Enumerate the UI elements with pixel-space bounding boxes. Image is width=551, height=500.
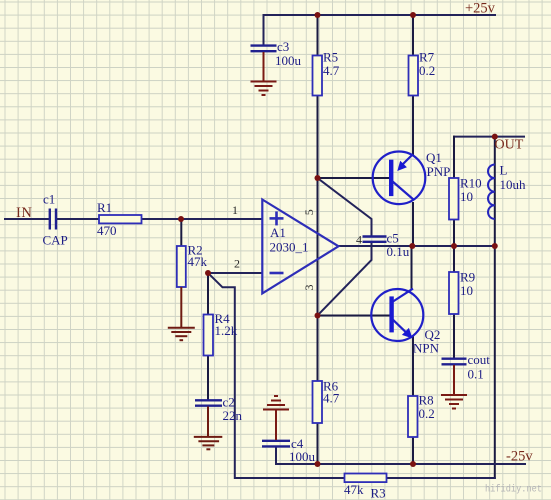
svg-text:IN: IN	[16, 205, 33, 221]
svg-text:22n: 22n	[223, 408, 243, 423]
junction dot rail-R5	[315, 12, 321, 18]
transistor Q2 NPN	[371, 289, 440, 356]
ground below c2	[194, 407, 223, 450]
svg-text:PNP: PNP	[427, 164, 451, 179]
op-amp U1 A1 2030_1	[262, 200, 338, 294]
capacitor c5	[363, 231, 410, 260]
capacitor c4	[262, 436, 316, 464]
svg-text:cout: cout	[468, 352, 491, 367]
wire c3 top stem to rail	[263, 15, 265, 45]
wire R7 branch from rail	[412, 15, 414, 56]
svg-text:+25v: +25v	[465, 1, 496, 17]
wire op-amp pin 2	[208, 272, 262, 274]
wire R4 top branch	[207, 273, 209, 315]
junction dot Q1 base node	[315, 175, 321, 181]
wire -25v rail	[276, 463, 525, 465]
wire R10 bottom to mid line	[453, 220, 455, 247]
svg-text:0.1: 0.1	[468, 367, 484, 382]
wire c5 bottom stub	[371, 242, 373, 246]
svg-text:OUT: OUT	[495, 138, 524, 153]
wire +25v top rail	[264, 14, 496, 16]
wire c1 to op-amp pin 1	[57, 218, 262, 220]
capacitor c2	[195, 395, 243, 424]
resistor R1	[97, 200, 142, 238]
wire op-amp output mid line	[339, 245, 495, 247]
junction dot Q2 base node	[315, 313, 321, 319]
resistor R6	[313, 379, 340, 424]
wire OUT column through inductor	[494, 137, 496, 246]
junction dot mid line R10-R9	[451, 243, 457, 249]
capacitor c1	[43, 192, 68, 248]
svg-text:CAP: CAP	[43, 233, 68, 248]
svg-text:1.2k: 1.2k	[215, 323, 238, 338]
svg-text:5: 5	[302, 209, 316, 215]
wire diagonal pin2 junction to feedback column	[208, 273, 235, 478]
ground below c3	[251, 52, 277, 95]
junction dot -25v rail R8	[410, 461, 416, 467]
wire c4 bottom stem	[275, 447, 277, 464]
svg-text:c1: c1	[43, 192, 55, 207]
svg-text:100u: 100u	[289, 449, 316, 464]
svg-text:c3: c3	[277, 39, 289, 54]
svg-text:4: 4	[356, 233, 362, 247]
wire R3 feedback rail	[235, 477, 495, 479]
junction dot mid line Q collectors	[409, 243, 415, 249]
svg-text:0.2: 0.2	[419, 406, 435, 421]
resistor R4	[204, 311, 238, 356]
svg-text:3: 3	[302, 285, 316, 291]
junction dot OUT	[492, 134, 498, 140]
svg-text:47k: 47k	[188, 254, 208, 269]
wire R9 bottom to cout	[453, 314, 455, 358]
ground above c4 (inverted)	[263, 396, 289, 440]
resistor R5	[313, 50, 340, 96]
capacitor cout	[442, 352, 491, 382]
resistor R2	[177, 243, 208, 288]
junction dot rail-R7	[410, 12, 416, 18]
wire Q2 collector up to mid line	[411, 246, 413, 289]
svg-text:-25v: -25v	[506, 449, 533, 465]
wire Q2 emitter down to R8	[412, 336, 414, 396]
svg-text:10: 10	[460, 189, 473, 204]
wire R9 top	[453, 246, 455, 272]
resistor R8	[408, 393, 435, 438]
wire top-right OUT rail	[454, 136, 524, 138]
resistor R9	[449, 270, 475, 315]
transistor Q1 PNP	[373, 150, 451, 204]
svg-text:0.2: 0.2	[419, 63, 435, 78]
svg-text:L: L	[500, 163, 508, 178]
wire Q2 base	[318, 315, 390, 317]
svg-text:47k: 47k	[344, 482, 364, 497]
resistor R3	[344, 474, 387, 500]
svg-text:10uh: 10uh	[500, 177, 527, 192]
svg-text:470: 470	[97, 223, 117, 238]
ground below R2	[168, 287, 195, 340]
wire R5 column rail to -25v rail (passes through op-amp pins 5,3)	[317, 15, 319, 464]
svg-text:4.7: 4.7	[323, 391, 340, 406]
svg-text:4.7: 4.7	[323, 63, 340, 78]
svg-text:10: 10	[460, 283, 473, 298]
wire Q1 base	[318, 177, 392, 179]
svg-text:A1: A1	[270, 225, 286, 240]
svg-text:R1: R1	[97, 200, 112, 215]
wire Q1 collector down to mid line	[412, 203, 414, 246]
wire input IN to c1	[5, 218, 48, 220]
svg-text:100u: 100u	[275, 53, 302, 68]
junction dot pin2-R4	[205, 270, 211, 276]
svg-text:0.1u: 0.1u	[387, 244, 410, 259]
svg-text:2030_1: 2030_1	[270, 240, 309, 255]
svg-text:Q1: Q1	[426, 150, 442, 165]
ground below cout	[441, 365, 467, 409]
svg-text:1: 1	[232, 203, 238, 217]
junction dot input-R2	[178, 216, 184, 222]
wire R4 bottom to c2	[207, 356, 209, 400]
wire R10 top branch	[453, 137, 455, 178]
junction dot mid line L	[492, 243, 498, 249]
capacitor c3	[251, 39, 302, 68]
resistor R7	[409, 50, 436, 96]
resistor R10	[449, 176, 482, 220]
wire diagonal Q1 base to c5	[318, 178, 372, 236]
svg-text:2: 2	[234, 257, 240, 271]
wire R7 bottom to Q1 emitter	[412, 96, 414, 154]
svg-text:R3: R3	[371, 486, 386, 500]
svg-text:NPN: NPN	[413, 341, 440, 356]
junction dot -25v rail R6	[315, 461, 321, 467]
wire diagonal mid line to Q2 base	[318, 246, 372, 316]
wire R8 bottom to -25v rail	[412, 437, 414, 464]
svg-text:hifidiy.net: hifidiy.net	[485, 484, 542, 496]
wire R2 top branch	[180, 219, 182, 247]
wire OUT column down to R3 rail	[494, 246, 496, 478]
inductor L	[488, 163, 526, 219]
